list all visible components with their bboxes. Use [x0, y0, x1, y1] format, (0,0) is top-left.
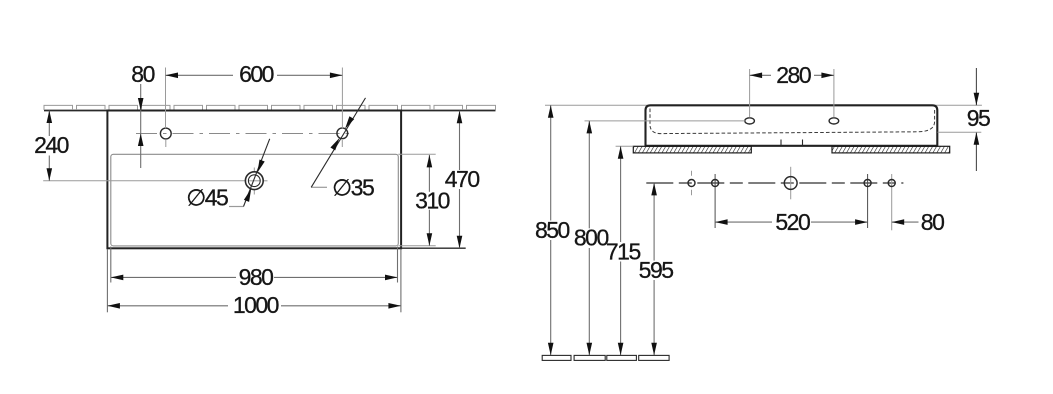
- mounting hole B extension: [714, 174, 716, 228]
- extension line bowl bottom right: [398, 245, 435, 247]
- svg-text:800: 800: [574, 225, 609, 251]
- label Ø35 arrowheads: [330, 138, 339, 151]
- faucet hole ellipse left: [745, 118, 755, 124]
- drain hole outer circle: [245, 172, 263, 190]
- drain hole inner circle: [248, 175, 260, 187]
- mounting hole C (center, large): [784, 177, 797, 190]
- svg-text:80: 80: [921, 209, 944, 235]
- mounting hole B: [712, 180, 719, 187]
- svg-text:∅45: ∅45: [186, 184, 228, 210]
- dimension 1000 (basin width): [107, 305, 228, 307]
- faucet hole right: [337, 128, 348, 139]
- drain centerline vertical ticks: [253, 168, 255, 173]
- console hatch strip left: [633, 146, 751, 153]
- dimension 800 (tap height): [588, 121, 590, 228]
- mounting hole A tick: [691, 171, 693, 176]
- faucet hole right center tick: [341, 140, 343, 147]
- dimension 80 (wall to tap axis): [140, 84, 142, 111]
- svg-text:1000: 1000: [233, 292, 279, 318]
- floor tile 3: [607, 355, 637, 360]
- dimension 280 (tap spacing): [749, 69, 751, 118]
- tap height extension line: [585, 120, 745, 122]
- svg-text:470: 470: [445, 166, 480, 192]
- mounting hole A: [688, 180, 695, 187]
- floor tile 2: [574, 355, 605, 360]
- drain centerline horizontal: [43, 180, 245, 182]
- svg-text:95: 95: [967, 105, 990, 131]
- mounting hole D extension: [867, 174, 869, 228]
- label Ø45 arrowheads: [244, 189, 251, 202]
- console hatch strip right: [832, 146, 950, 153]
- svg-text:240: 240: [34, 132, 69, 158]
- extension line bowl top right: [398, 153, 435, 155]
- svg-text:595: 595: [639, 257, 674, 283]
- bowl dashed inner profile: [650, 109, 935, 134]
- dimension 80 (hole offset): [892, 221, 919, 223]
- mounting hole D: [864, 180, 871, 187]
- floor tile 4: [639, 355, 669, 360]
- top reference line: [545, 104, 982, 106]
- mounting hole E: [888, 180, 895, 187]
- svg-text:600: 600: [239, 61, 274, 87]
- svg-text:80: 80: [131, 61, 154, 87]
- faucet centerline: [136, 133, 354, 135]
- faucet hole left center tick: [165, 140, 167, 147]
- wall tile segments: [44, 105, 496, 110]
- extension verticals bottom right: [397, 247, 399, 283]
- dimension 850 (rim height): [550, 105, 552, 220]
- drain marks: [780, 140, 782, 146]
- basin body outline: [646, 105, 938, 146]
- faucet hole left: [160, 128, 171, 139]
- mounting holes centerline: [646, 182, 903, 184]
- extension verticals bottom left: [106, 249, 108, 312]
- dimension 240 (wall to drain axis): [48, 111, 50, 137]
- extension line basin bottom right: [401, 247, 466, 249]
- wall line: [44, 110, 496, 112]
- dimension 310 (bowl depth): [428, 155, 430, 192]
- label Ø35 leader line: [311, 186, 327, 188]
- svg-text:280: 280: [776, 62, 811, 88]
- svg-text:980: 980: [239, 264, 274, 290]
- svg-text:850: 850: [535, 217, 570, 243]
- faucet hole ellipse right: [829, 118, 839, 124]
- dimension 520 (fixing hole spacing): [715, 221, 772, 223]
- dimension 980 (bowl width): [111, 276, 236, 278]
- label Ø45 leader line: [229, 206, 244, 208]
- console line extension: [616, 145, 634, 147]
- svg-text:520: 520: [775, 209, 810, 235]
- dimension 470 (basin depth): [459, 111, 461, 170]
- basin outer rectangle: [107, 111, 401, 249]
- svg-text:∅35: ∅35: [332, 175, 374, 201]
- mounting hole E extension: [891, 174, 893, 230]
- dimension 595 (fixing hole height): [653, 183, 655, 261]
- dimension 95 (rim to bowl bottom): [975, 68, 977, 105]
- mounting hole C ticks: [790, 167, 792, 200]
- dimension 715 (console height): [620, 146, 622, 242]
- dimension 600 (tap hole spacing): [165, 68, 167, 129]
- floor tile 1: [542, 355, 571, 360]
- basin bowl (inner rectangle): [111, 154, 399, 246]
- svg-text:715: 715: [606, 238, 641, 264]
